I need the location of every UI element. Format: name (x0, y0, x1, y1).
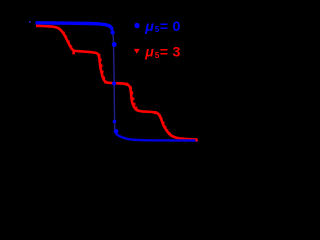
svg-text:μ5= 0: μ5= 0 (144, 19, 180, 35)
blue bottom plateau (115, 131, 198, 141)
blue marker on drop y83 (112, 81, 116, 85)
svg-text:μ5= 3: μ5= 3 (144, 45, 180, 61)
blue drop line (thin navy) (112, 28, 115, 131)
blue marker at bend y131 (114, 129, 118, 133)
blue marker on drop y121 (113, 120, 117, 124)
blue top plateau (36, 23, 113, 30)
blue marker on drop y32 (110, 30, 114, 34)
faint blue speck left of plot (29, 21, 31, 23)
legend marker circle (mu5=0) (134, 23, 139, 28)
red curve mu5=3 staircase (36, 26, 197, 140)
red data markers (jagged texture) (62, 32, 171, 135)
blue marker on drop y44 (112, 42, 117, 47)
legend marker triangle (mu5=3) (134, 49, 140, 54)
red end marker over blue (195, 139, 197, 142)
